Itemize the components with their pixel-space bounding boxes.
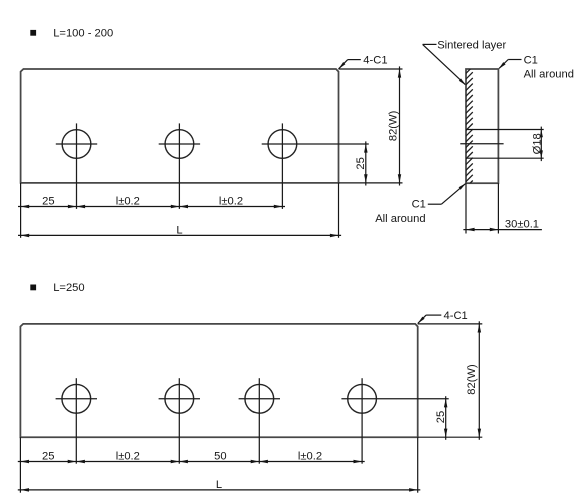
dimension text 25 vertical (view2) [435, 411, 447, 423]
hole 2 front view 1 (circle) [165, 130, 194, 159]
leader text 4-C1 (view1) [363, 55, 387, 67]
extension line side bottom right [497, 183, 499, 233]
hole 1 front view 1 (circle) [62, 130, 91, 159]
svg-text:L=250: L=250 [53, 282, 84, 294]
dimension text L (view2) [216, 479, 222, 491]
leader Sintered layer [423, 44, 466, 85]
leader C1 all around top-right [499, 60, 522, 70]
hole hidden line top (side view) [466, 129, 544, 131]
dimension line L (view2) [18, 488, 421, 492]
svg-text:25: 25 [42, 451, 54, 463]
svg-text:C1: C1 [412, 199, 426, 211]
svg-text:All around: All around [375, 213, 425, 225]
dimension text l±0.2 first (view2) [116, 451, 140, 463]
dimension text 25 (view1) [42, 196, 54, 208]
svg-text:4-C1: 4-C1 [444, 310, 468, 322]
extension line side bottom left [465, 183, 467, 233]
section label L=250 [53, 282, 84, 294]
svg-text:Sintered layer: Sintered layer [437, 39, 506, 51]
dimension line 25 (view2) [18, 460, 77, 463]
section marker bullet 2 [30, 285, 36, 291]
svg-text:25: 25 [435, 411, 447, 423]
leader text Sintered layer [437, 39, 506, 51]
hole 2 front view 2 centerline vertical / extension [178, 378, 180, 464]
svg-text:25: 25 [355, 157, 367, 169]
hole 3 centerline horizontal [262, 143, 369, 145]
hole 1 centerline vertical / extension [76, 123, 78, 208]
leader text C1 bottom-left [412, 199, 426, 211]
hole 1 centerline horizontal [56, 143, 97, 145]
svg-text:Ø18: Ø18 [531, 133, 543, 154]
plate outline front view 2 with corner chamfers [20, 324, 417, 437]
hole 1 front view 2 centerline horizontal [56, 398, 97, 400]
hole 2 front view 2 centerline horizontal [159, 398, 200, 400]
leader 4-C1 (view1) [339, 60, 361, 69]
svg-text:L: L [176, 224, 182, 236]
svg-text:All around: All around [524, 69, 574, 81]
extension line right edge down [338, 183, 340, 238]
hole 3 front view 2 (circle) [245, 384, 274, 413]
sintered layer hatching on left face [466, 67, 473, 188]
dimension text 50 (view2) [214, 451, 226, 463]
dimension line 25 vertical (view2) [444, 396, 448, 440]
hole 3 front view 2 centerline vertical / extension [258, 378, 260, 464]
hole 2 centerline horizontal [159, 143, 200, 145]
dimension line l±0.2 first (view2) [76, 460, 179, 463]
leader text 4-C1 (view2) [444, 310, 468, 322]
hole 2 front view 2 (circle) [165, 384, 194, 413]
dimension text 25 (view2) [42, 451, 54, 463]
hole 3 front view 2 centerline horizontal [239, 398, 280, 400]
extension line bottom edge right (view2) [418, 436, 483, 438]
hole 1 front view 2 centerline vertical / extension [75, 378, 77, 464]
dimension line l±0.2 second (view1) [179, 205, 285, 208]
extension line top edge right (view2) [418, 323, 483, 325]
section marker bullet 1 [30, 30, 36, 36]
side view outline [466, 69, 498, 183]
svg-text:l±0.2: l±0.2 [116, 451, 140, 463]
svg-text:50: 50 [214, 451, 226, 463]
leader text All around bottom-left [375, 213, 425, 225]
svg-text:l±0.2: l±0.2 [116, 196, 140, 208]
dimension text 82(W) (view2) [466, 364, 478, 395]
leader 4-C1 (view2) [418, 315, 442, 323]
hole hidden line bottom (side view) [466, 157, 544, 159]
dimension line l±0.2 first (view1) [77, 205, 180, 208]
hole 3 front view 1 (circle) [268, 130, 297, 159]
svg-text:4-C1: 4-C1 [363, 55, 387, 67]
dimension text l±0.2 second (view2) [298, 451, 322, 463]
dimension line L (view1) [18, 234, 341, 238]
section label L=100 - 200 [53, 27, 113, 39]
hole 4 front view 2 centerline vertical / extension [361, 378, 363, 464]
svg-text:L=100 - 200: L=100 - 200 [53, 27, 113, 39]
dimension line 50 (view2) [179, 460, 259, 463]
dimension text Ø18 (side view) [531, 133, 543, 154]
svg-text:30±0.1: 30±0.1 [505, 218, 539, 230]
dimension line 82(W) (view2) [478, 321, 482, 440]
svg-text:82(W): 82(W) [466, 364, 478, 395]
hole centerline (side view) [460, 143, 503, 145]
dimension line Ø18 (side view) [540, 127, 543, 162]
hole 4 front view 2 centerline horizontal [341, 398, 448, 400]
dimension text L (view1) [176, 224, 182, 236]
hole 2 centerline vertical / extension [178, 123, 180, 208]
plate outline front view 1 with corner chamfers [21, 69, 339, 183]
svg-text:l±0.2: l±0.2 [298, 451, 322, 463]
dimension text 25 vertical (view1) [355, 157, 367, 169]
leader text C1 top-right [524, 55, 538, 67]
dimension text l±0.2 second (view1) [219, 196, 243, 208]
hole 1 front view 2 (circle) [62, 384, 91, 413]
dimension line 82(W) (view1) [398, 66, 401, 185]
leader text All around top-right [524, 69, 574, 81]
dimension text 82(W) (view1) [388, 110, 400, 141]
hole 3 centerline vertical / extension [281, 123, 283, 208]
svg-text:l±0.2: l±0.2 [219, 196, 243, 208]
svg-text:25: 25 [42, 196, 54, 208]
dimension text 30±0.1 (side view) [505, 218, 539, 230]
dimension text l±0.2 first (view1) [116, 196, 140, 208]
extension line left edge down (view2) [19, 437, 21, 493]
svg-text:C1: C1 [524, 55, 538, 67]
hole 4 front view 2 (circle) [348, 384, 377, 413]
extension line top edge right [339, 68, 403, 70]
dimension line l±0.2 second (view2) [259, 460, 364, 463]
dimension line 25 vertical (view1) [364, 141, 368, 185]
dimension line 30±0.1 (side view) [463, 228, 542, 232]
dimension line 25 (view1) [18, 205, 77, 208]
leader C1 all around bottom-left [428, 183, 466, 204]
extension line bottom edge right [339, 182, 403, 184]
svg-text:L: L [216, 479, 222, 491]
extension line right edge down (view2) [417, 437, 419, 493]
extension line left edge down [20, 183, 22, 238]
svg-text:82(W): 82(W) [388, 110, 400, 141]
